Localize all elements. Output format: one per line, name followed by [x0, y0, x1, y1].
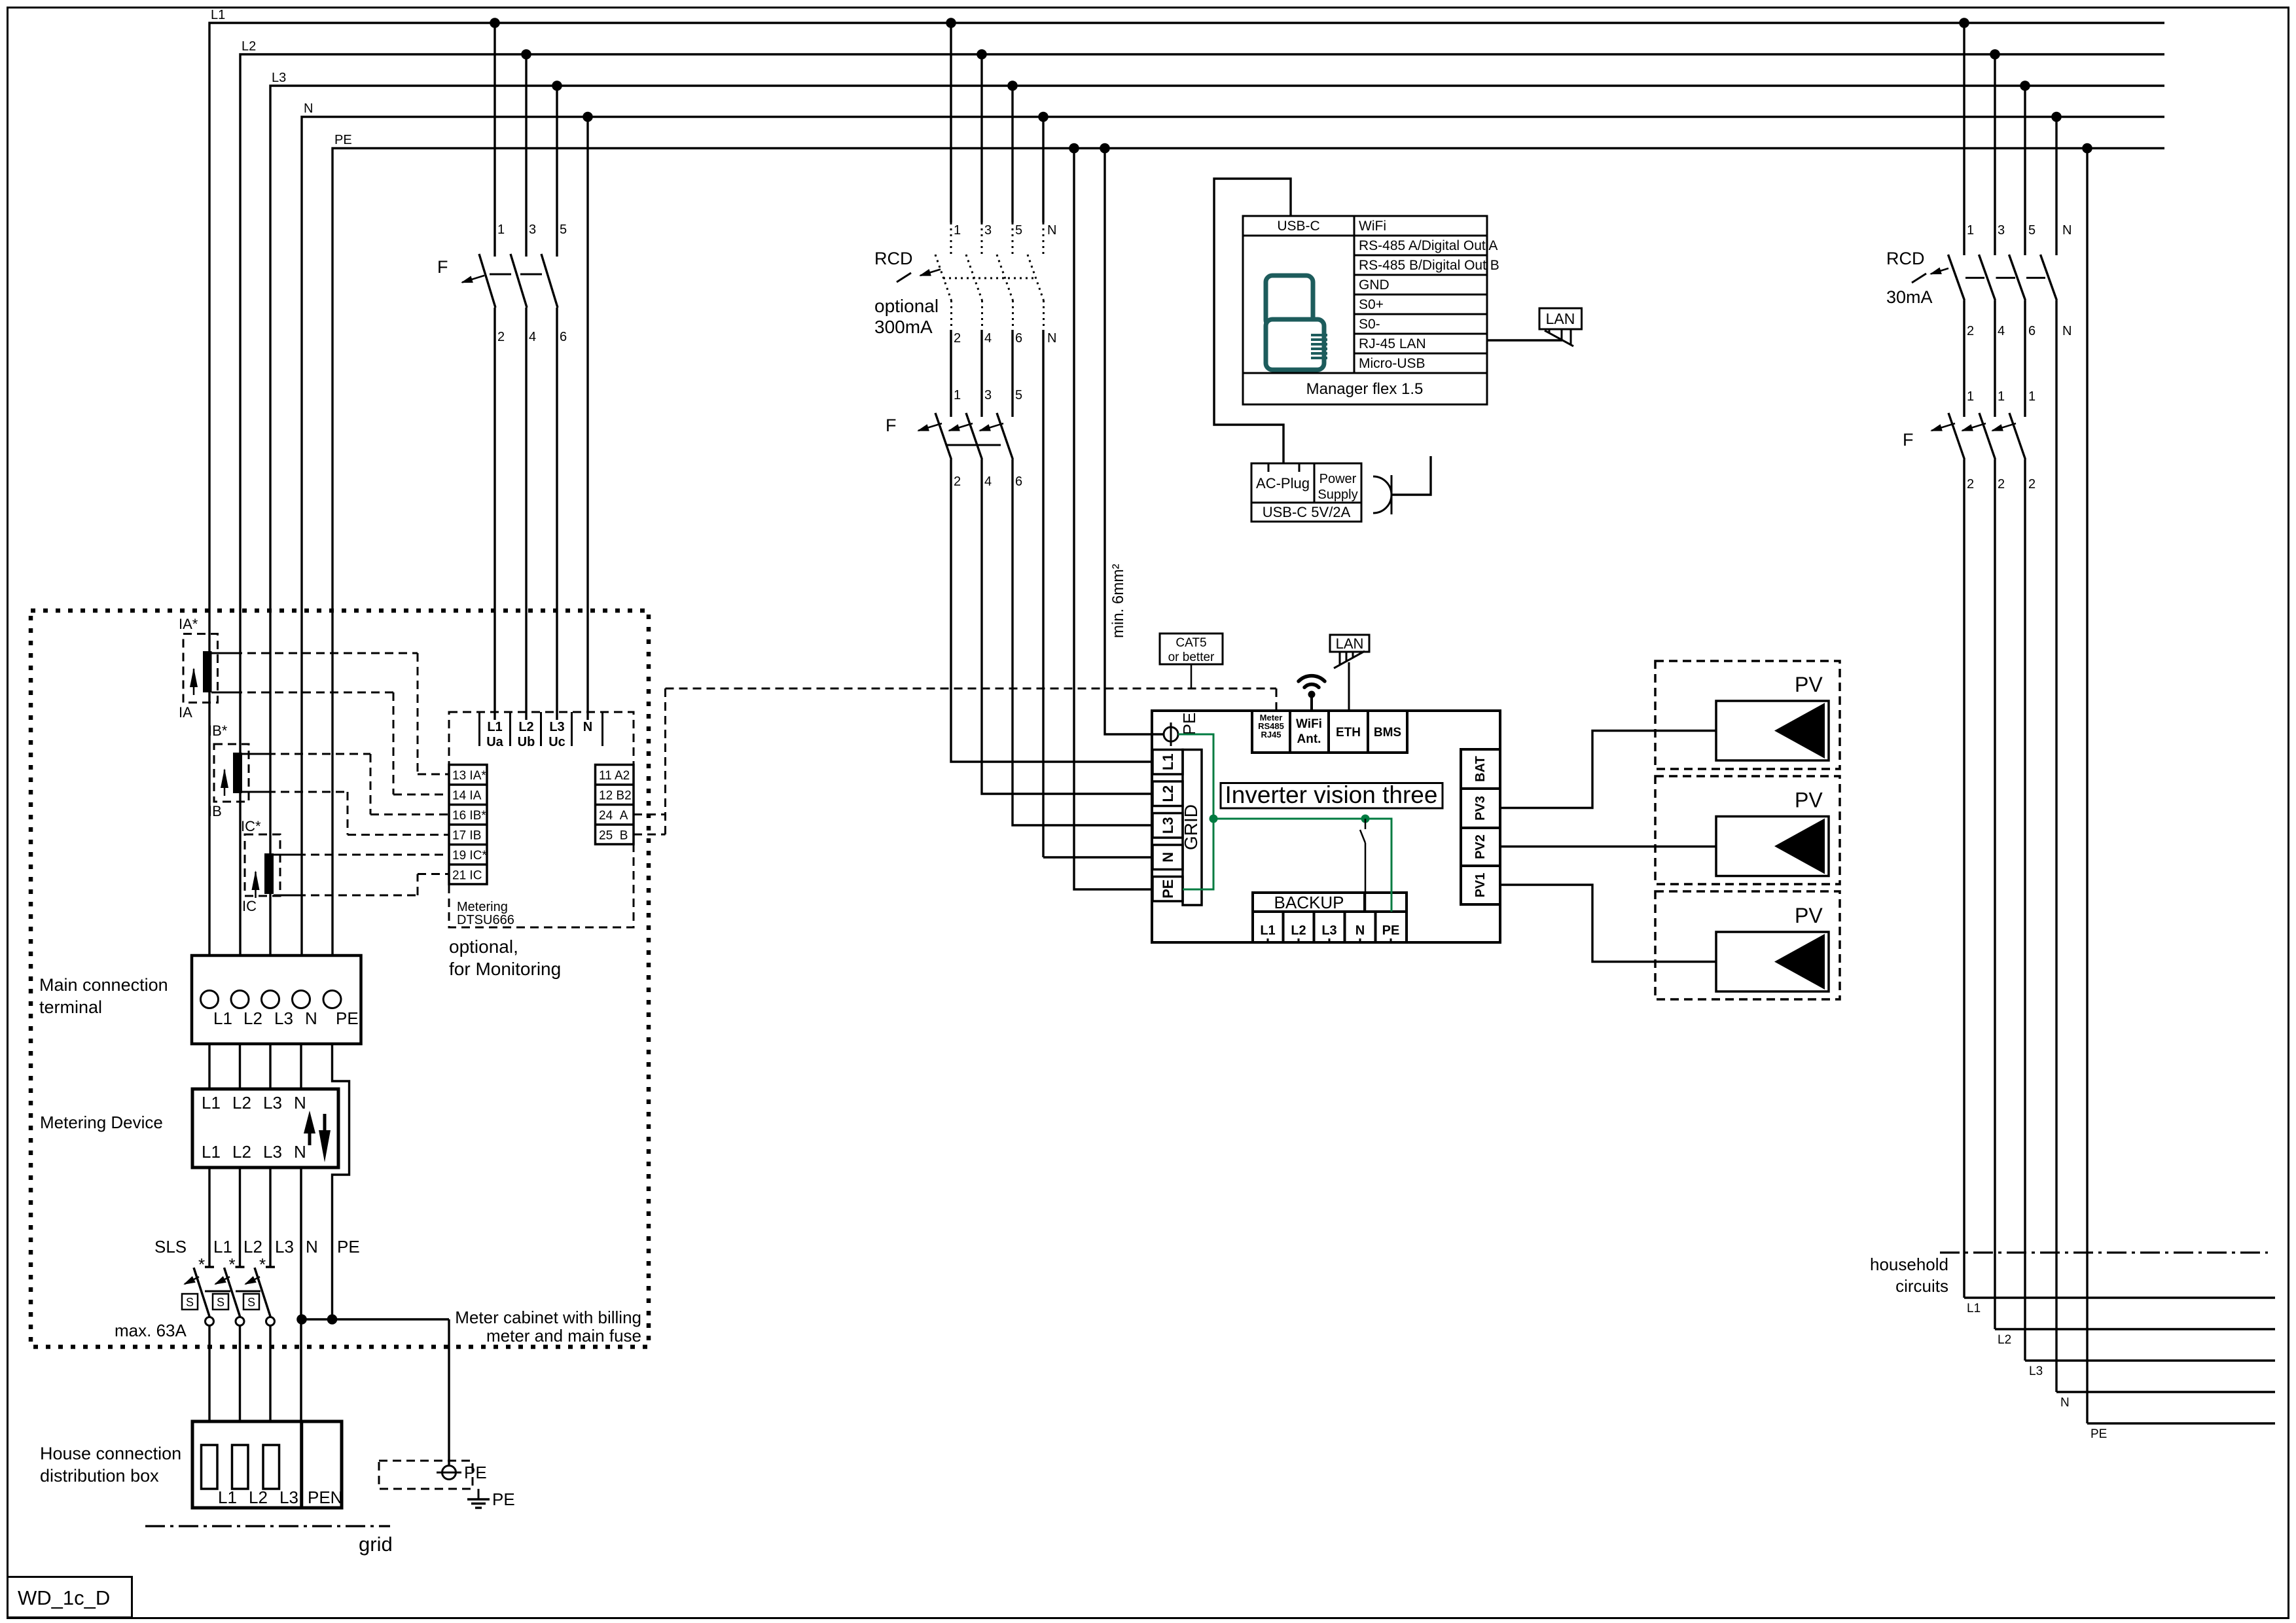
svg-text:25 B: 25 B — [599, 829, 628, 843]
svg-text:PEN: PEN — [308, 1488, 342, 1507]
svg-text:2: 2 — [2028, 477, 2036, 491]
svg-text:4: 4 — [984, 474, 992, 489]
svg-text:S: S — [217, 1296, 224, 1309]
svg-text:Metering Device: Metering Device — [40, 1113, 163, 1132]
svg-text:L2: L2 — [242, 39, 256, 54]
svg-text:F: F — [886, 416, 897, 435]
svg-text:Power: Power — [1319, 472, 1357, 486]
svg-text:300mA: 300mA — [874, 317, 933, 337]
svg-text:6: 6 — [560, 330, 567, 344]
svg-text:Micro-USB: Micro-USB — [1359, 356, 1426, 371]
svg-text:L2: L2 — [249, 1488, 268, 1507]
svg-text:PE: PE — [1160, 880, 1176, 899]
svg-text:S: S — [186, 1296, 194, 1309]
svg-text:3: 3 — [1998, 223, 2005, 238]
svg-text:WD_1c_D: WD_1c_D — [18, 1586, 110, 1609]
svg-text:N: N — [583, 720, 592, 734]
svg-text:14 IA: 14 IA — [452, 789, 482, 803]
svg-text:N: N — [294, 1142, 306, 1162]
svg-text:L1: L1 — [1967, 1302, 1981, 1315]
svg-text:Uc: Uc — [548, 735, 565, 749]
svg-text:max. 63A: max. 63A — [115, 1321, 187, 1340]
svg-text:L3: L3 — [549, 720, 564, 734]
svg-text:5: 5 — [1015, 223, 1022, 238]
svg-text:6: 6 — [1015, 331, 1022, 346]
svg-text:L3: L3 — [263, 1093, 282, 1113]
svg-text:USB-C: USB-C — [1277, 219, 1319, 234]
svg-text:PE: PE — [337, 1237, 360, 1257]
svg-text:L1: L1 — [487, 720, 502, 734]
svg-text:3: 3 — [529, 223, 536, 237]
svg-text:S: S — [247, 1296, 255, 1309]
svg-text:WiFi: WiFi — [1359, 219, 1386, 234]
svg-text:L1: L1 — [211, 8, 225, 22]
svg-text:circuits: circuits — [1895, 1276, 1948, 1296]
svg-text:IB: IB — [208, 803, 222, 819]
svg-text:21 IC: 21 IC — [452, 869, 482, 883]
svg-text:L3: L3 — [1160, 817, 1176, 834]
svg-text:optional,: optional, — [449, 936, 518, 957]
svg-text:DTSU666: DTSU666 — [457, 913, 514, 927]
svg-text:PV3: PV3 — [1473, 796, 1488, 821]
svg-text:or better: or better — [1168, 651, 1215, 664]
svg-text:L2: L2 — [232, 1093, 251, 1113]
svg-text:17 IB: 17 IB — [452, 829, 481, 843]
svg-text:PV1: PV1 — [1473, 873, 1488, 898]
svg-text:PV: PV — [1795, 904, 1823, 927]
svg-text:6: 6 — [2028, 324, 2036, 338]
svg-text:min. 6mm²: min. 6mm² — [1109, 564, 1127, 638]
svg-text:IA*: IA* — [179, 616, 198, 632]
svg-text:meter and main fuse: meter and main fuse — [486, 1326, 641, 1346]
svg-text:11 A2: 11 A2 — [599, 769, 630, 783]
svg-text:L2: L2 — [243, 1008, 262, 1028]
svg-text:1: 1 — [497, 223, 505, 237]
svg-text:GRID: GRID — [1181, 804, 1201, 850]
svg-text:13 IA*: 13 IA* — [452, 769, 486, 783]
svg-text:5: 5 — [2028, 223, 2036, 238]
svg-text:Supply: Supply — [1318, 488, 1357, 502]
svg-text:AC-Plug: AC-Plug — [1256, 475, 1310, 491]
svg-text:Main connection: Main connection — [39, 975, 168, 995]
svg-text:N: N — [306, 1237, 318, 1257]
svg-text:House connection: House connection — [40, 1444, 181, 1463]
svg-text:3: 3 — [984, 223, 992, 238]
svg-text:L1: L1 — [213, 1008, 232, 1028]
svg-text:N: N — [1047, 331, 1056, 346]
svg-text:L3: L3 — [274, 1008, 293, 1028]
svg-text:5: 5 — [560, 223, 567, 237]
svg-text:Inverter vision three: Inverter vision three — [1225, 781, 1438, 808]
svg-text:distribution box: distribution box — [40, 1466, 159, 1486]
svg-text:N: N — [1047, 223, 1056, 238]
svg-text:RJ-45 LAN: RJ-45 LAN — [1359, 336, 1426, 351]
svg-text:4: 4 — [984, 331, 992, 346]
svg-text:PE: PE — [464, 1463, 487, 1482]
svg-text:CAT5: CAT5 — [1175, 636, 1206, 650]
svg-text:4: 4 — [1998, 324, 2005, 338]
svg-text:PV: PV — [1795, 789, 1823, 812]
svg-text:Manager flex 1.5: Manager flex 1.5 — [1306, 380, 1424, 398]
svg-text:IC*: IC* — [241, 818, 261, 834]
svg-text:BMS: BMS — [1374, 726, 1401, 740]
svg-text:RJ45: RJ45 — [1261, 730, 1281, 740]
svg-text:5: 5 — [1015, 388, 1022, 402]
svg-text:L3: L3 — [272, 71, 286, 85]
svg-text:GND: GND — [1359, 277, 1390, 293]
svg-text:2: 2 — [1967, 477, 1974, 491]
svg-text:L1: L1 — [202, 1093, 221, 1113]
svg-text:*: * — [259, 1255, 266, 1274]
svg-text:PE: PE — [492, 1489, 515, 1509]
svg-text:L1: L1 — [202, 1142, 221, 1162]
svg-text:1: 1 — [1967, 223, 1974, 238]
svg-text:RS-485 B/Digital Out B: RS-485 B/Digital Out B — [1359, 258, 1499, 273]
svg-text:L2: L2 — [232, 1142, 251, 1162]
svg-text:IB*: IB* — [208, 722, 228, 739]
svg-text:optional: optional — [874, 296, 939, 316]
svg-text:4: 4 — [529, 330, 536, 344]
svg-text:IA: IA — [179, 704, 192, 721]
svg-text:LAN: LAN — [1546, 310, 1575, 327]
svg-text:N: N — [294, 1093, 306, 1113]
svg-text:Metering: Metering — [457, 900, 508, 914]
svg-text:LAN: LAN — [1336, 635, 1364, 652]
svg-text:6: 6 — [1015, 474, 1022, 489]
svg-text:L2: L2 — [1998, 1333, 2011, 1347]
svg-text:L3: L3 — [1321, 923, 1336, 938]
svg-text:1: 1 — [954, 223, 961, 238]
svg-text:*: * — [198, 1255, 205, 1274]
svg-text:1: 1 — [1998, 389, 2005, 404]
svg-text:household: household — [1870, 1255, 1948, 1274]
svg-text:RCD: RCD — [1886, 249, 1925, 268]
svg-text:L1: L1 — [218, 1488, 237, 1507]
svg-text:16 IB*: 16 IB* — [452, 809, 486, 823]
svg-text:N: N — [1160, 852, 1176, 863]
svg-text:PV: PV — [1795, 673, 1823, 696]
svg-text:N: N — [2062, 324, 2072, 338]
svg-text:*: * — [229, 1255, 236, 1274]
svg-text:L3: L3 — [279, 1488, 298, 1507]
svg-text:1: 1 — [2028, 389, 2036, 404]
svg-text:SLS: SLS — [154, 1237, 187, 1257]
svg-text:S0+: S0+ — [1359, 297, 1384, 312]
svg-text:L1: L1 — [1160, 753, 1176, 770]
svg-text:3: 3 — [984, 388, 992, 402]
svg-text:30mA: 30mA — [1886, 287, 1933, 307]
svg-text:BACKUP: BACKUP — [1274, 893, 1344, 912]
svg-text:for Monitoring: for Monitoring — [449, 959, 561, 979]
svg-text:L2: L2 — [243, 1237, 262, 1257]
svg-text:terminal: terminal — [39, 997, 102, 1017]
svg-text:F: F — [437, 257, 448, 277]
svg-text:1: 1 — [954, 388, 961, 402]
svg-text:L2: L2 — [518, 720, 533, 734]
svg-text:24 A: 24 A — [599, 809, 628, 823]
svg-text:L1: L1 — [1260, 923, 1275, 938]
svg-text:S0-: S0- — [1359, 317, 1380, 332]
svg-text:2: 2 — [954, 331, 961, 346]
svg-text:1: 1 — [1967, 389, 1974, 404]
svg-text:L3: L3 — [275, 1237, 294, 1257]
svg-text:L2: L2 — [1291, 923, 1306, 938]
svg-text:N: N — [305, 1008, 317, 1028]
svg-text:PE: PE — [336, 1008, 359, 1028]
svg-text:Ub: Ub — [518, 735, 535, 749]
svg-text:PV2: PV2 — [1473, 834, 1488, 859]
svg-text:2: 2 — [954, 474, 961, 489]
svg-text:PE: PE — [2090, 1427, 2107, 1441]
svg-text:N: N — [1355, 923, 1365, 938]
svg-text:RCD: RCD — [874, 249, 913, 268]
svg-text:N: N — [304, 101, 313, 116]
svg-text:RS-485 A/Digital Out A: RS-485 A/Digital Out A — [1359, 238, 1498, 253]
svg-text:Ua: Ua — [486, 735, 503, 749]
svg-text:12 B2: 12 B2 — [599, 789, 632, 803]
svg-text:F: F — [1903, 430, 1914, 450]
svg-text:L3: L3 — [2029, 1364, 2043, 1378]
svg-text:USB-C 5V/2A: USB-C 5V/2A — [1263, 504, 1351, 520]
svg-text:N: N — [2062, 223, 2072, 238]
svg-text:N: N — [2060, 1396, 2070, 1410]
svg-text:Ant.: Ant. — [1297, 732, 1321, 746]
svg-text:PE: PE — [1382, 923, 1400, 938]
svg-text:BAT: BAT — [1473, 756, 1488, 782]
svg-text:2: 2 — [1998, 477, 2005, 491]
svg-text:L3: L3 — [263, 1142, 282, 1162]
svg-text:Meter cabinet with billing: Meter cabinet with billing — [455, 1308, 641, 1327]
svg-text:2: 2 — [497, 330, 505, 344]
svg-text:L1: L1 — [213, 1237, 232, 1257]
svg-text:19 IC*: 19 IC* — [452, 849, 487, 863]
svg-text:L2: L2 — [1160, 785, 1176, 802]
svg-text:PE: PE — [1179, 713, 1199, 736]
svg-text:2: 2 — [1967, 324, 1974, 338]
svg-text:IC: IC — [242, 898, 257, 914]
svg-text:WiFi: WiFi — [1296, 717, 1322, 731]
svg-text:PE: PE — [334, 133, 352, 147]
svg-text:grid: grid — [359, 1533, 393, 1556]
svg-text:ETH: ETH — [1336, 726, 1361, 740]
